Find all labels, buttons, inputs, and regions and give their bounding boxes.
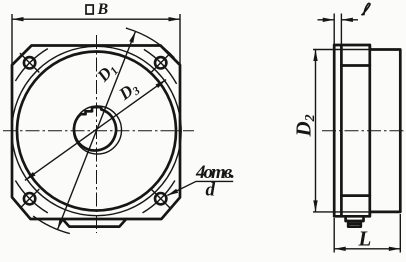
- D2 dimension: extension lines: [313, 50, 370, 212]
- D3 dimension line: [25, 80, 166, 181]
- side view: foot step 2: [348, 221, 361, 227]
- svg-text:B: B: [97, 1, 109, 18]
- svg-text:D2: D2: [292, 114, 319, 137]
- corner circle arc top (thin): [126, 28, 174, 58]
- label l: [362, 3, 370, 15]
- leader 4 holes d: [167, 181, 233, 195]
- svg-text:d: d: [206, 180, 216, 201]
- vertical centerline: [96, 35, 98, 233]
- side view: outline with step: [334, 45, 400, 216]
- side view: chamfer shoulder lines: [341, 66, 369, 196]
- hole top-right: [155, 57, 166, 68]
- side view: centerline: [322, 130, 405, 132]
- main body circle D1-ish (thick): [17, 52, 176, 211]
- label square B: [86, 5, 93, 14]
- spigot circle (thin, nearly touching square): [12, 46, 181, 215]
- svg-text:L: L: [358, 226, 372, 250]
- L dimension: extension lines: [334, 214, 400, 253]
- side view: step edge vertical: [368, 45, 371, 216]
- hub boss circle (thin): [74, 106, 122, 154]
- square-B dimension: extension lines: [11, 14, 13, 64]
- side view: flange plate: [334, 45, 341, 216]
- L dimension line: [334, 248, 400, 250]
- corner circle arc bottom-left (thin): [33, 216, 70, 234]
- D2 dimension line: [315, 50, 317, 212]
- hole bottom-right: [155, 193, 166, 204]
- radial 45deg centermarks of holes: [151, 53, 170, 72]
- square-B dimension line: [12, 18, 180, 20]
- foot pad trapezoid: [63, 219, 127, 227]
- svg-text:D3: D3: [115, 78, 143, 106]
- l dimension line and arrows: [318, 19, 359, 21]
- front view: square flange plate with chamfered corners: [12, 46, 180, 220]
- bore with keyway (thick): [74, 107, 116, 150]
- D1 dimension line: [58, 31, 136, 229]
- horizontal centerline: [3, 130, 194, 132]
- l dimension extension lines: [334, 14, 341, 45]
- bolt circle arcs through holes: [144, 49, 177, 84]
- hole bottom-left: [24, 193, 35, 204]
- svg-text:4отв.: 4отв.: [195, 162, 235, 183]
- side view: foot step 1: [346, 216, 364, 221]
- hole top-left: [24, 57, 35, 68]
